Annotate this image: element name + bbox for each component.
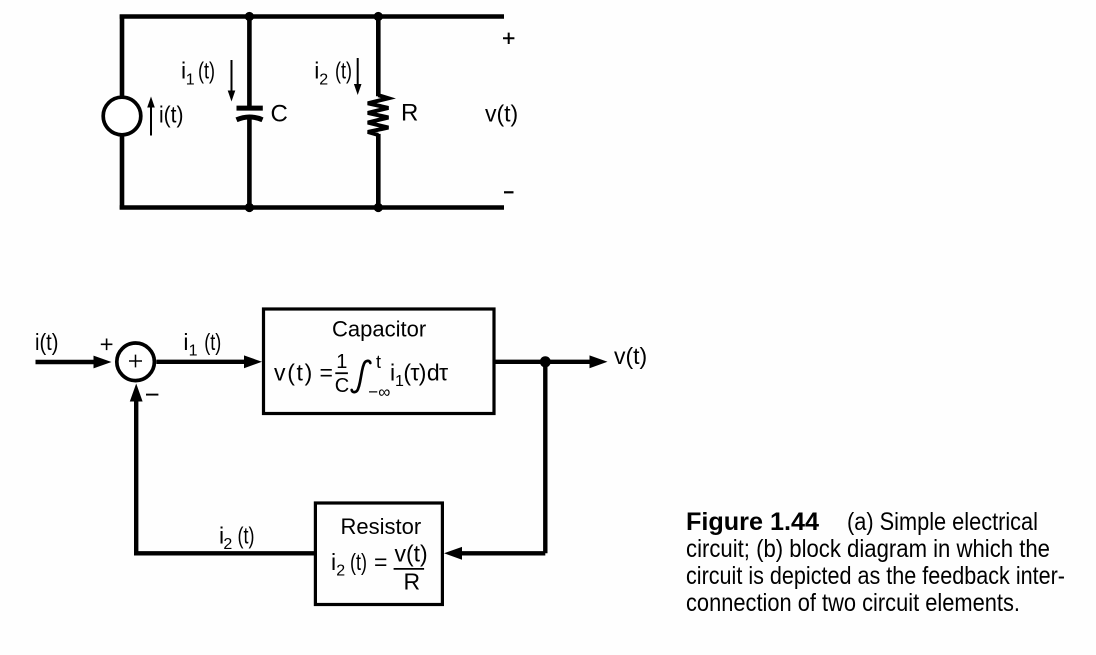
svg-text:circuit is depicted as the fee: circuit is depicted as the feedback inte… xyxy=(686,562,1065,590)
svg-text:(t): (t) xyxy=(198,58,215,84)
svg-text:(t): (t) xyxy=(350,549,367,575)
svg-text:C: C xyxy=(335,375,349,397)
svg-text:Figure 1.44(a) Simple electric: Figure 1.44(a) Simple electrical xyxy=(686,508,1038,536)
svg-text:v(t): v(t) xyxy=(614,343,647,369)
svg-text:(t): (t) xyxy=(238,523,255,549)
svg-text:(τ) dτ: (τ) dτ xyxy=(403,360,448,386)
svg-text:Resistor: Resistor xyxy=(341,514,422,539)
svg-text:1: 1 xyxy=(186,72,195,89)
svg-text:−∞: −∞ xyxy=(368,383,390,402)
svg-text:R: R xyxy=(404,568,421,594)
svg-text:2: 2 xyxy=(319,72,328,89)
svg-text:2: 2 xyxy=(223,536,232,553)
svg-text:connection of two circuit elem: connection of two circuit elements. xyxy=(686,589,1020,617)
svg-text:R: R xyxy=(401,100,418,127)
svg-text:1: 1 xyxy=(336,351,347,373)
svg-text:v(t): v(t) xyxy=(485,101,518,127)
svg-text:t: t xyxy=(376,352,381,372)
svg-text:(t): (t) xyxy=(204,329,221,355)
svg-text:v(t): v(t) xyxy=(274,360,314,386)
svg-text:=: = xyxy=(320,360,333,386)
svg-text:2: 2 xyxy=(336,563,345,580)
svg-text:Capacitor: Capacitor xyxy=(332,316,426,341)
svg-text:v(t): v(t) xyxy=(395,541,428,567)
svg-text:1: 1 xyxy=(189,343,198,360)
svg-text:=: = xyxy=(374,549,387,575)
svg-text:i(t): i(t) xyxy=(159,102,184,128)
svg-text:(t): (t) xyxy=(335,58,352,84)
svg-text:i(t): i(t) xyxy=(35,329,59,355)
svg-text:C: C xyxy=(271,100,288,127)
svg-text:circuit; (b) block diagram in: circuit; (b) block diagram in which the xyxy=(686,535,1050,563)
